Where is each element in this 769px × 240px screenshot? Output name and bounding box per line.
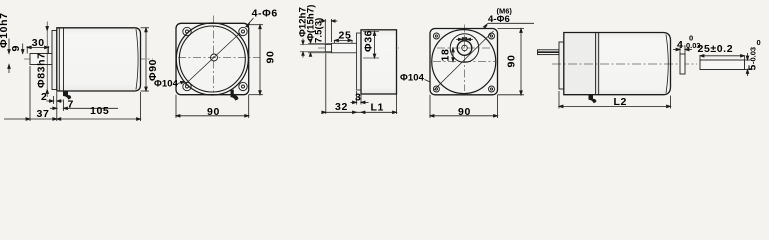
svg-text:18: 18 <box>440 49 452 62</box>
svg-text:-0.03: -0.03 <box>749 47 758 64</box>
svg-text:25±0.2: 25±0.2 <box>698 43 734 55</box>
svg-text:Φ36: Φ36 <box>363 30 375 52</box>
svg-text:5: 5 <box>747 64 759 70</box>
svg-text:9: 9 <box>10 45 22 51</box>
svg-text:30: 30 <box>32 37 45 49</box>
svg-text:0: 0 <box>689 34 693 43</box>
svg-text:4-Φ6: 4-Φ6 <box>252 8 278 20</box>
svg-text:Φ104: Φ104 <box>154 79 179 90</box>
svg-text:L2: L2 <box>614 96 627 108</box>
svg-text:25: 25 <box>339 30 352 42</box>
svg-text:32: 32 <box>335 101 348 113</box>
svg-text:90: 90 <box>506 55 518 68</box>
svg-text:4: 4 <box>677 39 683 51</box>
svg-text:7.5(3): 7.5(3) <box>314 18 325 43</box>
svg-text:3: 3 <box>355 92 361 104</box>
svg-text:105: 105 <box>90 105 109 117</box>
svg-text:90: 90 <box>458 106 471 118</box>
svg-text:Φ104: Φ104 <box>400 73 425 84</box>
svg-text:7: 7 <box>68 99 74 111</box>
svg-text:L1: L1 <box>371 102 384 114</box>
svg-text:2: 2 <box>41 91 47 103</box>
svg-text:0: 0 <box>757 38 761 47</box>
svg-text:90: 90 <box>207 106 220 118</box>
svg-text:Φ83h7: Φ83h7 <box>36 52 48 88</box>
svg-text:Φ10h7: Φ10h7 <box>0 12 10 48</box>
svg-text:90: 90 <box>265 51 277 64</box>
svg-text:37: 37 <box>37 108 50 120</box>
svg-text:4-Φ6: 4-Φ6 <box>488 14 510 25</box>
